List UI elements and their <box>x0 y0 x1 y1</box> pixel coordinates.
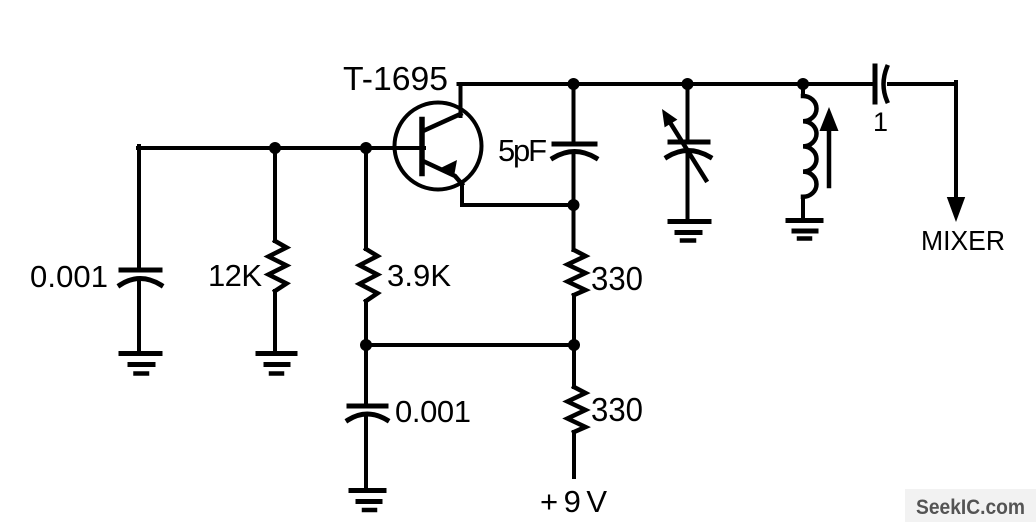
resistor R4 330 <box>568 387 586 432</box>
ground <box>788 221 821 239</box>
watermark background <box>905 489 1036 522</box>
junction dot top rail 5pF <box>568 78 580 90</box>
svg-text:1: 1 <box>873 107 888 137</box>
junction dot bottom rail right <box>568 339 580 351</box>
svg-text:+9V: +9V <box>540 484 607 519</box>
wire bottom rail <box>366 343 574 347</box>
junction dot top rail varcap <box>682 78 694 90</box>
resistor R3 330 <box>568 250 586 295</box>
ground <box>121 354 160 374</box>
wire top rail <box>459 82 872 86</box>
wire C2 top lead <box>364 345 368 404</box>
svg-text:MIXER: MIXER <box>921 225 1005 256</box>
junction dot top rail inductor <box>797 78 809 90</box>
wire 5pF vertical <box>572 84 576 142</box>
junction dot emitter rail <box>568 199 580 211</box>
wire 3.9K bottom lead <box>364 301 368 345</box>
arrowhead to mixer <box>947 197 965 222</box>
capacitor C2 0.001 bottom <box>348 406 387 420</box>
junction dot base rail 1 <box>269 142 281 154</box>
svg-text:330: 330 <box>591 260 643 297</box>
wire base rail <box>138 146 424 150</box>
svg-text:3.9K: 3.9K <box>387 258 451 293</box>
wire collector up <box>459 84 463 116</box>
wire <box>572 345 576 387</box>
capacitor C3 5pF <box>553 144 596 158</box>
transistor Q1 T-1695 <box>395 103 482 190</box>
capacitor C5 1 <box>875 66 887 102</box>
wire 12K bottom lead <box>273 291 277 351</box>
svg-text:0.001: 0.001 <box>395 394 471 429</box>
resistor R2 3.9K <box>360 249 378 301</box>
ground <box>670 222 709 241</box>
ground <box>258 354 295 374</box>
ground <box>351 491 384 511</box>
capacitor C1 0.001 left <box>120 270 161 285</box>
svg-text:12K: 12K <box>208 258 262 293</box>
junction dot base rail 2 <box>360 142 372 154</box>
wire left vertical <box>137 146 141 268</box>
junction dot bottom rail left <box>360 339 372 351</box>
inductor L1 <box>803 84 817 217</box>
svg-text:0.001: 0.001 <box>30 259 108 294</box>
wire varcap bottom lead <box>686 153 690 219</box>
wire <box>137 281 141 351</box>
wire <box>364 417 368 488</box>
wire to +9V <box>572 432 576 477</box>
wire varcap top lead <box>686 84 690 140</box>
svg-text:5pF: 5pF <box>498 133 547 168</box>
wire emitter down <box>462 182 574 205</box>
wire mixer down <box>954 82 958 199</box>
wire 3.9K top lead <box>364 148 368 249</box>
svg-text:SeekIC.com: SeekIC.com <box>916 496 1025 519</box>
svg-text:T-1695: T-1695 <box>343 60 448 97</box>
variable capacitor C4 <box>662 109 710 180</box>
wire 12K top lead <box>273 148 277 241</box>
arrow up beside inductor <box>820 107 839 186</box>
svg-text:330: 330 <box>591 391 643 428</box>
resistor R1 12K <box>269 241 287 291</box>
wire <box>572 295 576 345</box>
wire <box>572 155 576 250</box>
wire top rail right <box>889 82 956 86</box>
